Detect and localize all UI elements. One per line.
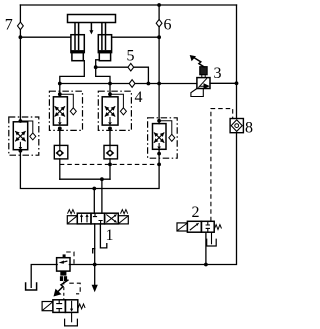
svg-text:6: 6 [164, 17, 172, 34]
svg-text:5: 5 [127, 48, 135, 65]
svg-text:4: 4 [135, 89, 143, 106]
svg-text:1: 1 [106, 227, 114, 244]
svg-text:7: 7 [5, 16, 13, 33]
svg-text:3: 3 [214, 65, 222, 82]
svg-text:2: 2 [192, 204, 200, 221]
svg-text:8: 8 [245, 120, 253, 137]
